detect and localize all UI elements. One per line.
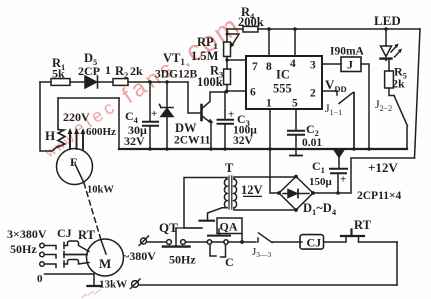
svg-text:3: 3 xyxy=(310,60,316,72)
svg-text:CJ: CJ xyxy=(307,236,322,250)
svg-text:~380V: ~380V xyxy=(123,249,156,263)
capacitor C4 xyxy=(149,82,151,121)
svg-text:M: M xyxy=(99,256,111,271)
svg-text:DW: DW xyxy=(175,121,197,135)
svg-text:I90mA: I90mA xyxy=(330,46,365,58)
svg-text:C: C xyxy=(225,255,234,269)
wire primary bottom contact xyxy=(208,208,228,220)
svg-text:5: 5 xyxy=(292,98,298,110)
wire QA between contacts xyxy=(212,241,225,243)
svg-text:1.5M: 1.5M xyxy=(191,49,219,63)
svg-text:D1~D4: D1~D4 xyxy=(303,201,337,217)
wire top horizontal y=82 xyxy=(40,81,188,83)
svg-text:R2: R2 xyxy=(115,64,128,80)
svg-text:C2: C2 xyxy=(306,122,319,138)
resistor R3 xyxy=(224,69,231,85)
svg-text:7: 7 xyxy=(252,61,258,73)
motor M xyxy=(87,239,124,276)
svg-text:13kW: 13kW xyxy=(99,279,127,291)
wire neutral xyxy=(45,273,95,275)
svg-text:32V: 32V xyxy=(124,134,145,148)
F lead arrows xyxy=(68,128,86,149)
button QA xyxy=(207,240,211,244)
wire pin7 xyxy=(227,59,246,61)
wire pin4 xyxy=(294,29,296,56)
wire rail corner to J2-2 xyxy=(406,127,408,149)
wire pin2 / contact J1-1 xyxy=(322,91,337,95)
contact RT xyxy=(345,237,347,243)
svg-text:QT: QT xyxy=(159,220,178,235)
svg-text:+: + xyxy=(340,174,346,186)
svg-text:600Hz: 600Hz xyxy=(86,126,116,138)
svg-text:2k: 2k xyxy=(130,64,143,78)
wire pin8 xyxy=(268,29,270,56)
wire bottom rail xyxy=(140,284,398,286)
svg-text:2k: 2k xyxy=(392,77,405,91)
svg-text:100k: 100k xyxy=(197,75,223,89)
capacitor C3 xyxy=(224,92,226,119)
wire primary top xyxy=(184,178,227,229)
resistor R4 xyxy=(243,26,258,32)
svg-text:200k: 200k xyxy=(238,15,264,29)
svg-text:8: 8 xyxy=(266,61,272,73)
svg-text:RT: RT xyxy=(354,218,372,232)
svg-text:LED: LED xyxy=(374,13,401,28)
wire secondary bottom xyxy=(234,208,296,210)
svg-text:IC: IC xyxy=(276,68,290,82)
svg-text:1: 1 xyxy=(266,98,272,110)
control row: cable mark xyxy=(141,238,147,244)
svg-text:J3—3: J3—3 xyxy=(252,246,272,259)
node collector/R3/pin6 xyxy=(225,90,229,94)
bridge rectifier D1-D4 xyxy=(279,177,313,211)
svg-text:10kW: 10kW xyxy=(87,185,114,196)
svg-text:12V: 12V xyxy=(241,183,263,197)
capacitor C1 xyxy=(338,157,340,168)
svg-text:1: 1 xyxy=(105,63,111,77)
wire secondary top xyxy=(234,177,296,179)
svg-text:C1: C1 xyxy=(312,159,325,175)
shaft F to M xyxy=(75,164,84,183)
cable mark bottom xyxy=(132,281,139,288)
contactor coil CJ xyxy=(300,235,324,250)
resistor R1 xyxy=(51,79,70,86)
zener DW xyxy=(166,82,168,108)
potentiometer RP1 xyxy=(224,42,231,57)
svg-text:5k: 5k xyxy=(52,67,65,81)
op IC 555 box xyxy=(246,56,322,109)
svg-text:50Hz: 50Hz xyxy=(10,242,37,256)
contact J2-2 xyxy=(389,88,394,96)
watermark www.elecfans.com xyxy=(36,9,246,165)
svg-text:2: 2 xyxy=(310,88,316,100)
heater H zigzag xyxy=(58,98,65,147)
watermark partial bottom-left xyxy=(82,290,100,298)
svg-text:555: 555 xyxy=(273,82,292,96)
wire QT to QA xyxy=(186,241,208,243)
diode D5 xyxy=(85,76,97,88)
svg-text:+12V: +12V xyxy=(368,160,398,175)
contact J3-3 xyxy=(257,238,259,242)
svg-text:6: 6 xyxy=(250,87,256,99)
capacitor C2 xyxy=(295,109,297,130)
switch QT xyxy=(167,240,172,245)
node C4 tap xyxy=(148,80,151,83)
top rail xyxy=(227,28,420,30)
svg-text:220V: 220V xyxy=(63,110,90,124)
transistor VT1 xyxy=(188,82,200,113)
wire pin6 xyxy=(227,90,246,92)
wire box right xyxy=(118,98,120,149)
wire right drop xyxy=(396,242,398,285)
supply terminals xyxy=(40,243,45,248)
junction dots rail xyxy=(148,147,152,151)
transformer T xyxy=(229,176,232,209)
wire to QT xyxy=(147,241,167,243)
svg-text:J: J xyxy=(347,58,353,72)
wire pin3 xyxy=(322,63,341,65)
svg-text:0: 0 xyxy=(37,273,43,285)
resistor R2 xyxy=(113,79,128,86)
svg-text:0.01: 0.01 xyxy=(302,137,322,149)
motor earth xyxy=(93,274,95,285)
generator F xyxy=(57,149,93,185)
svg-text:RT: RT xyxy=(78,228,96,242)
svg-text:J2−2: J2−2 xyxy=(375,97,392,113)
wire right outer vertical xyxy=(415,29,421,158)
svg-text:2CP: 2CP xyxy=(78,64,100,78)
resistor R5 xyxy=(385,71,394,88)
LED xyxy=(385,29,387,46)
svg-text:T: T xyxy=(225,161,234,175)
svg-text:32V: 32V xyxy=(233,135,254,147)
svg-text:CJ: CJ xyxy=(57,226,72,240)
svg-text:2CP11×4: 2CP11×4 xyxy=(357,190,401,202)
svg-text:VDD: VDD xyxy=(325,77,347,94)
thermal RT heaters xyxy=(64,241,89,252)
wire bridge + output xyxy=(313,158,415,193)
svg-text:3×380V: 3×380V xyxy=(7,227,47,241)
contactor CJ main contacts xyxy=(45,246,57,250)
svg-text:+: + xyxy=(151,108,157,120)
node DW tap xyxy=(165,80,168,83)
svg-text:150μ: 150μ xyxy=(309,176,333,188)
wire pin1 xyxy=(270,109,278,193)
svg-text:F: F xyxy=(70,155,77,169)
relay coil J xyxy=(341,57,361,72)
wire left vertical xyxy=(40,82,58,151)
svg-text:4: 4 xyxy=(290,58,296,70)
svg-text:H: H xyxy=(45,128,55,143)
svg-text:3DG12B: 3DG12B xyxy=(155,69,198,81)
svg-text:+: + xyxy=(228,109,234,121)
svg-text:50Hz: 50Hz xyxy=(169,253,196,267)
ground rail xyxy=(119,148,407,150)
svg-text:QA: QA xyxy=(220,220,238,234)
svg-text:2CW11: 2CW11 xyxy=(174,135,211,147)
wire box top xyxy=(58,97,119,99)
